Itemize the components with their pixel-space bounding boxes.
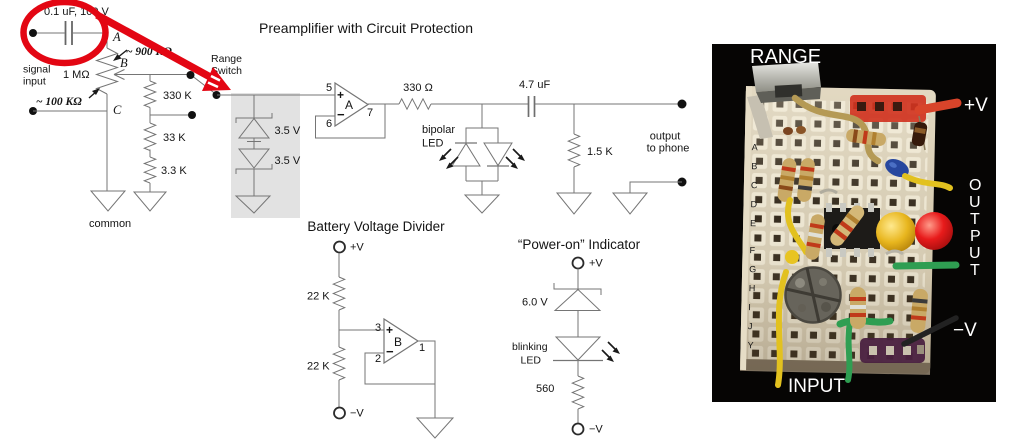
resistor R3 33K bbox=[144, 123, 186, 157]
ground below output bbox=[613, 193, 647, 214]
ground below potentiometer bbox=[91, 191, 125, 211]
svg-text:signal: signal bbox=[23, 64, 50, 76]
resistor R2 330K bbox=[144, 81, 192, 123]
zener D4 6.0V bbox=[522, 283, 601, 337]
ground below 1.5K bbox=[557, 193, 591, 214]
switch throw node top bbox=[187, 71, 195, 79]
zener D1 3.5V bbox=[236, 113, 301, 149]
svg-text:T: T bbox=[970, 211, 980, 228]
brown wire stubs top row bbox=[783, 127, 793, 135]
svg-text:4.7 uF: 4.7 uF bbox=[519, 79, 550, 91]
terminal +V indicator bbox=[573, 258, 604, 270]
svg-text:330 Ω: 330 Ω bbox=[403, 82, 433, 94]
svg-text:I: I bbox=[748, 302, 751, 312]
wire op-amp B output to ground bbox=[434, 384, 436, 418]
svg-text:1.5 K: 1.5 K bbox=[587, 146, 613, 158]
svg-text:J: J bbox=[748, 321, 753, 331]
bipolar LED D3 bbox=[422, 124, 512, 195]
red +V wire bbox=[919, 103, 957, 110]
svg-text:+: + bbox=[386, 323, 393, 337]
diagonal resistor over IC bbox=[828, 203, 867, 249]
terminal -V indicator bbox=[573, 424, 604, 436]
svg-text:−: − bbox=[337, 107, 345, 122]
svg-text:−V: −V bbox=[589, 424, 603, 436]
blue component bbox=[882, 155, 911, 180]
svg-text:Preamplifier with Circuit Prot: Preamplifier with Circuit Protection bbox=[259, 20, 473, 36]
yellow LED bbox=[876, 212, 916, 252]
wire pole to op-amp bbox=[217, 94, 335, 96]
svg-text:T: T bbox=[970, 262, 980, 279]
vertical resistor left of IC bbox=[804, 213, 826, 261]
svg-text:Range: Range bbox=[211, 53, 242, 65]
wire op-amp output bbox=[368, 103, 399, 105]
potentiometer R1 1M bbox=[63, 33, 118, 191]
svg-text:U: U bbox=[969, 245, 981, 262]
svg-text:22 K: 22 K bbox=[307, 291, 330, 303]
svg-text:~ 100 KΩ: ~ 100 KΩ bbox=[36, 96, 82, 108]
silver jumper wires bbox=[886, 251, 903, 254]
terminal +V battery divider bbox=[334, 242, 364, 254]
wire capacitor to output bbox=[535, 103, 683, 105]
wire junction to switch lower throw bbox=[150, 114, 192, 116]
switch throw node bottom bbox=[188, 111, 196, 119]
svg-text:−V: −V bbox=[953, 320, 977, 341]
switch metal body bbox=[747, 62, 821, 139]
yellow wire bottom left bbox=[778, 272, 786, 385]
resistor R8 22K lower bbox=[307, 347, 345, 408]
svg-text:A: A bbox=[112, 30, 121, 44]
svg-text:A: A bbox=[345, 98, 353, 112]
svg-text:common: common bbox=[89, 218, 131, 230]
svg-text:B: B bbox=[394, 335, 402, 349]
svg-text:560: 560 bbox=[536, 383, 554, 395]
svg-text:+V: +V bbox=[589, 258, 603, 270]
svg-text:33 K: 33 K bbox=[163, 132, 186, 144]
wire 330 to capacitor bbox=[431, 103, 528, 105]
blinking LED arrows bbox=[602, 342, 620, 362]
horizontal resistor top bbox=[845, 128, 886, 146]
ground below 3.3K bbox=[134, 192, 166, 211]
red arrow to range switch bbox=[97, 15, 231, 91]
svg-text:O: O bbox=[969, 177, 981, 194]
svg-text:RANGE: RANGE bbox=[750, 46, 821, 68]
svg-text:INPUT: INPUT bbox=[788, 376, 845, 397]
svg-text:330 K: 330 K bbox=[163, 90, 192, 102]
wire output bottom to ground bbox=[630, 182, 682, 193]
svg-text:LED: LED bbox=[521, 355, 542, 367]
svg-text:LED: LED bbox=[422, 138, 443, 150]
svg-text:output: output bbox=[650, 131, 681, 143]
svg-text:+V: +V bbox=[350, 242, 364, 254]
switch lever bbox=[191, 75, 217, 95]
terminal -V battery divider bbox=[334, 408, 364, 420]
svg-text:+V: +V bbox=[964, 95, 988, 116]
tan wire from switch bbox=[795, 98, 878, 161]
wire +V down bbox=[338, 254, 340, 278]
wire stem to bipolar LED bbox=[481, 104, 483, 128]
svg-text:B: B bbox=[751, 161, 757, 171]
resistor R7 22K upper bbox=[307, 277, 345, 347]
svg-text:C: C bbox=[113, 103, 122, 117]
photo label OUTPUT vertical bbox=[969, 177, 981, 279]
svg-text:22 K: 22 K bbox=[307, 361, 330, 373]
photo black background bbox=[712, 44, 996, 402]
svg-text:7: 7 bbox=[367, 107, 373, 119]
svg-text:A: A bbox=[752, 142, 758, 152]
svg-text:input: input bbox=[23, 76, 46, 88]
two tilted resistors left bbox=[777, 157, 798, 203]
switch pole node bbox=[213, 91, 221, 99]
svg-text:2: 2 bbox=[375, 353, 381, 365]
svg-text:C: C bbox=[751, 180, 758, 190]
red marked +V strip bbox=[850, 95, 926, 122]
resistor R9 560 bbox=[536, 376, 584, 424]
resistor R4 3.3K bbox=[144, 157, 187, 192]
svg-text:E: E bbox=[750, 218, 756, 228]
ground below op-amp B bbox=[417, 418, 453, 438]
wire signal input bottom bbox=[33, 110, 107, 112]
node signal input bottom bbox=[29, 107, 37, 115]
breadboard bbox=[740, 86, 936, 375]
svg-text:3.5 V: 3.5 V bbox=[275, 125, 301, 137]
IC chip bbox=[824, 203, 880, 257]
svg-text:1: 1 bbox=[419, 342, 425, 354]
capacitor C1 0.1uF 100V bbox=[44, 6, 109, 45]
green wire down bbox=[848, 322, 850, 380]
bottom resistor right bbox=[910, 288, 929, 333]
small yellow bead bbox=[785, 250, 799, 264]
op-amp U1B bbox=[375, 319, 425, 365]
svg-text:H: H bbox=[749, 283, 756, 293]
op-amp U1A bbox=[326, 82, 373, 130]
svg-text:+: + bbox=[337, 88, 344, 102]
svg-text:bipolar: bipolar bbox=[422, 124, 455, 136]
wire stem to 1.5K bbox=[573, 104, 575, 134]
green wire right bbox=[896, 265, 956, 266]
bipolar LED arrows right bbox=[506, 149, 525, 169]
capacitor C2 4.7uF bbox=[519, 79, 550, 117]
svg-text:“Power-on” Indicator: “Power-on” Indicator bbox=[518, 237, 641, 252]
metal can bbox=[786, 268, 841, 323]
bottom resistor mid bbox=[850, 287, 866, 329]
wire pin6 feedback loop bbox=[316, 104, 386, 138]
red highlight ellipse bbox=[24, 2, 106, 63]
svg-text:3.3 K: 3.3 K bbox=[161, 165, 187, 177]
svg-text:P: P bbox=[970, 228, 981, 245]
svg-text:to phone: to phone bbox=[647, 143, 690, 155]
svg-text:−V: −V bbox=[350, 408, 364, 420]
wiper arrow node B bbox=[114, 70, 191, 80]
wire junction to op-amp B pin3 bbox=[339, 329, 384, 331]
zener D2 3.5V bbox=[236, 149, 301, 196]
label ~900K with arrow bbox=[113, 46, 172, 61]
resistor R5 330 bbox=[399, 82, 433, 109]
svg-text:3: 3 bbox=[375, 322, 381, 334]
purple marked -V strip bbox=[860, 338, 925, 363]
svg-text:D: D bbox=[750, 199, 757, 209]
svg-text:1 MΩ: 1 MΩ bbox=[63, 69, 90, 81]
wire op-amp B feedback bbox=[365, 341, 435, 384]
svg-text:F: F bbox=[749, 245, 755, 255]
black wire bbox=[904, 318, 956, 344]
protection shaded box bbox=[231, 93, 300, 218]
ground in protection box bbox=[236, 196, 270, 213]
yellow wire mid-left bbox=[788, 200, 806, 252]
node output top bbox=[678, 100, 687, 109]
red LED bbox=[915, 212, 953, 250]
small diode near +V bbox=[919, 116, 925, 150]
svg-text:6.0 V: 6.0 V bbox=[522, 297, 548, 309]
ground below bipolar LED bbox=[465, 195, 499, 213]
svg-text:3.5 V: 3.5 V bbox=[275, 155, 301, 167]
resistor R6 1.5K bbox=[568, 134, 613, 193]
svg-text:Y: Y bbox=[747, 340, 753, 350]
bipolar LED arrows left bbox=[439, 149, 458, 169]
wire into protection box bbox=[253, 95, 255, 118]
wire signal input top to capacitor bbox=[33, 32, 65, 34]
blinking LED D5 bbox=[512, 337, 603, 376]
svg-text:B: B bbox=[120, 56, 128, 70]
svg-text:Battery Voltage Divider: Battery Voltage Divider bbox=[307, 219, 445, 234]
svg-text:blinking: blinking bbox=[512, 341, 548, 353]
node output bottom bbox=[678, 178, 687, 187]
svg-text:−: − bbox=[386, 344, 394, 359]
svg-text:G: G bbox=[749, 264, 756, 274]
svg-text:U: U bbox=[969, 194, 981, 211]
green wire mid bbox=[840, 321, 890, 324]
svg-text:6: 6 bbox=[326, 118, 332, 130]
wire +V to zener bbox=[577, 269, 579, 290]
svg-text:5: 5 bbox=[326, 82, 332, 94]
wire B to 330K chain bbox=[149, 75, 151, 82]
yellow wire right bbox=[905, 176, 950, 188]
label ~100K with arrow bbox=[36, 88, 100, 108]
node signal input top bbox=[29, 29, 37, 37]
